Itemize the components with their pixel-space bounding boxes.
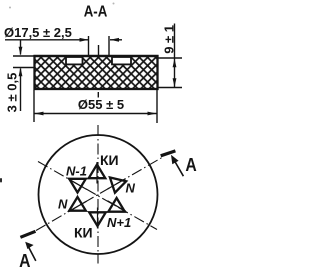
section line A-A thin part	[36, 158, 162, 231]
dimension 3 +- 0,5 (left)	[13, 41, 34, 112]
svg-text:A: A	[185, 154, 196, 176]
spoke segment through KI top triangle	[96, 162, 98, 184]
svg-text:N-1: N-1	[66, 164, 87, 179]
center tick below section	[97, 92, 99, 98]
spoke segment through N-1 triangle	[68, 179, 86, 189]
dimension line D17,5	[5, 38, 122, 42]
triangle N upper-right	[107, 178, 126, 195]
section arrow lower-left	[25, 242, 36, 261]
section stroke lower-left	[20, 231, 35, 237]
triangle N+1 lower-right	[108, 198, 125, 212]
svg-text:N: N	[126, 181, 136, 196]
dimension 9 +- 1 (right)	[158, 24, 182, 88]
groove notch right	[112, 57, 131, 64]
svg-text:3 ± 0,5: 3 ± 0,5	[5, 73, 20, 113]
spoke segment through KI bottom triangle	[97, 208, 99, 229]
scan speck top-middle	[113, 3, 115, 5]
center tick top view	[98, 45, 100, 56]
spoke segment through N left triangle	[68, 201, 86, 212]
groove notch left	[66, 57, 83, 64]
svg-text:Ø55 ± 5: Ø55 ± 5	[78, 97, 124, 112]
section stroke upper-right	[161, 151, 176, 156]
svg-text:9 ± 1: 9 ± 1	[162, 25, 177, 54]
svg-text:A-A: A-A	[84, 3, 108, 20]
diagonal centerline 150-330	[38, 162, 157, 230]
scan speck left edge	[0, 178, 2, 183]
svg-text:A: A	[19, 250, 30, 271]
extension lines D17,5	[89, 36, 110, 56]
svg-text:N: N	[58, 197, 68, 212]
dimension D55 (bottom of section)	[34, 90, 157, 123]
spoke segment through N+1 triangle	[108, 201, 126, 211]
section arrow upper-right	[171, 155, 183, 176]
scan speck top-left	[9, 7, 11, 9]
svg-text:КИ: КИ	[100, 152, 119, 168]
triangle N left	[69, 197, 86, 211]
top edge redraw	[34, 55, 159, 57]
svg-text:N+1: N+1	[107, 215, 131, 230]
svg-text:Ø17,5 ± 2,5: Ø17,5 ± 2,5	[4, 25, 72, 40]
body cross-section rectangle	[35, 56, 158, 89]
vertical centerline	[97, 125, 99, 264]
spoke segment through N right triangle	[107, 179, 125, 190]
svg-text:КИ: КИ	[74, 225, 93, 241]
circle (bottom view)	[39, 135, 158, 254]
triangle N-1 upper-left	[69, 179, 86, 193]
triangle KI bottom	[89, 212, 106, 226]
triangle KI top	[89, 165, 106, 179]
